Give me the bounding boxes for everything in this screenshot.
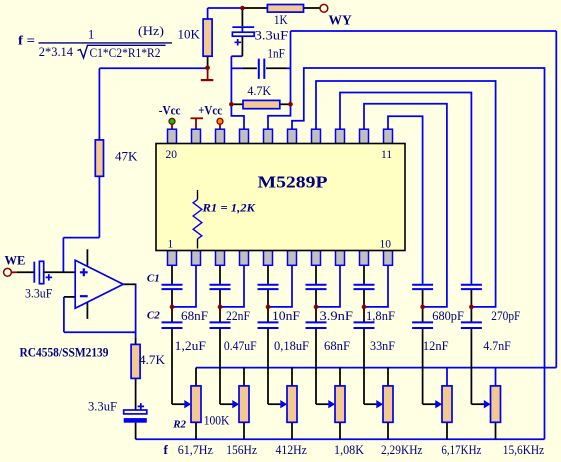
- svg-text:M5289P: M5289P: [258, 173, 328, 192]
- svg-text:68nF: 68nF: [324, 339, 350, 353]
- svg-text:1nF: 1nF: [267, 47, 284, 61]
- svg-text:RC4558/SSM2139: RC4558/SSM2139: [20, 346, 109, 360]
- svg-text:WY: WY: [329, 13, 353, 28]
- svg-text:+Vcc: +Vcc: [198, 104, 222, 118]
- svg-text:2,29KHz: 2,29KHz: [381, 443, 423, 457]
- svg-text:3.3uF: 3.3uF: [255, 29, 289, 43]
- svg-text:100K: 100K: [204, 414, 230, 428]
- svg-text:1,08K: 1,08K: [334, 443, 364, 457]
- svg-text:3.9nF: 3.9nF: [320, 309, 354, 323]
- svg-text:11: 11: [381, 149, 392, 161]
- svg-text:10nF: 10nF: [272, 309, 300, 323]
- svg-text:C1: C1: [147, 272, 160, 284]
- svg-text:270pF: 270pF: [491, 309, 520, 323]
- svg-text:20: 20: [166, 149, 178, 161]
- svg-text:(Hz): (Hz): [138, 24, 164, 38]
- svg-text:156Hz: 156Hz: [226, 443, 257, 457]
- svg-text:3.3uF: 3.3uF: [25, 287, 52, 301]
- svg-text:0.47uF: 0.47uF: [224, 339, 257, 353]
- svg-text:15,6KHz: 15,6KHz: [503, 443, 545, 457]
- svg-text:412Hz: 412Hz: [276, 443, 308, 457]
- svg-text:4.7nF: 4.7nF: [483, 339, 510, 353]
- svg-text:C1*C2*R1*R2: C1*C2*R1*R2: [90, 46, 161, 60]
- svg-text:680pF: 680pF: [432, 309, 464, 323]
- svg-text:0,18uF: 0,18uF: [274, 339, 309, 353]
- svg-text:68nF: 68nF: [181, 309, 208, 323]
- svg-text:R2: R2: [172, 419, 186, 431]
- svg-text:22nF: 22nF: [226, 309, 250, 323]
- svg-text:12nF: 12nF: [423, 339, 449, 353]
- svg-text:1,8nF: 1,8nF: [366, 309, 395, 323]
- svg-text:1K: 1K: [274, 13, 288, 27]
- svg-text:47K: 47K: [115, 150, 138, 164]
- svg-text:4.7K: 4.7K: [247, 84, 271, 98]
- svg-text:R1 = 1,2K: R1 = 1,2K: [201, 203, 256, 215]
- svg-text:f: f: [164, 442, 169, 457]
- svg-text:61,7Hz: 61,7Hz: [178, 443, 214, 457]
- svg-text:1: 1: [168, 239, 174, 251]
- svg-text:C2: C2: [147, 310, 160, 322]
- svg-text:3.3uF: 3.3uF: [88, 400, 117, 414]
- svg-text:4.7K: 4.7K: [139, 353, 165, 367]
- svg-text:33nF: 33nF: [370, 339, 395, 353]
- svg-text:f =: f =: [18, 33, 35, 48]
- svg-text:10K: 10K: [178, 28, 201, 42]
- svg-text:1: 1: [88, 28, 94, 42]
- svg-text:WE: WE: [5, 254, 26, 268]
- svg-text:10: 10: [380, 239, 392, 251]
- svg-text:2*3.14: 2*3.14: [39, 45, 74, 59]
- svg-text:6,17KHz: 6,17KHz: [441, 443, 481, 457]
- svg-text:-Vcc: -Vcc: [159, 104, 181, 118]
- svg-text:1,2uF: 1,2uF: [175, 339, 206, 353]
